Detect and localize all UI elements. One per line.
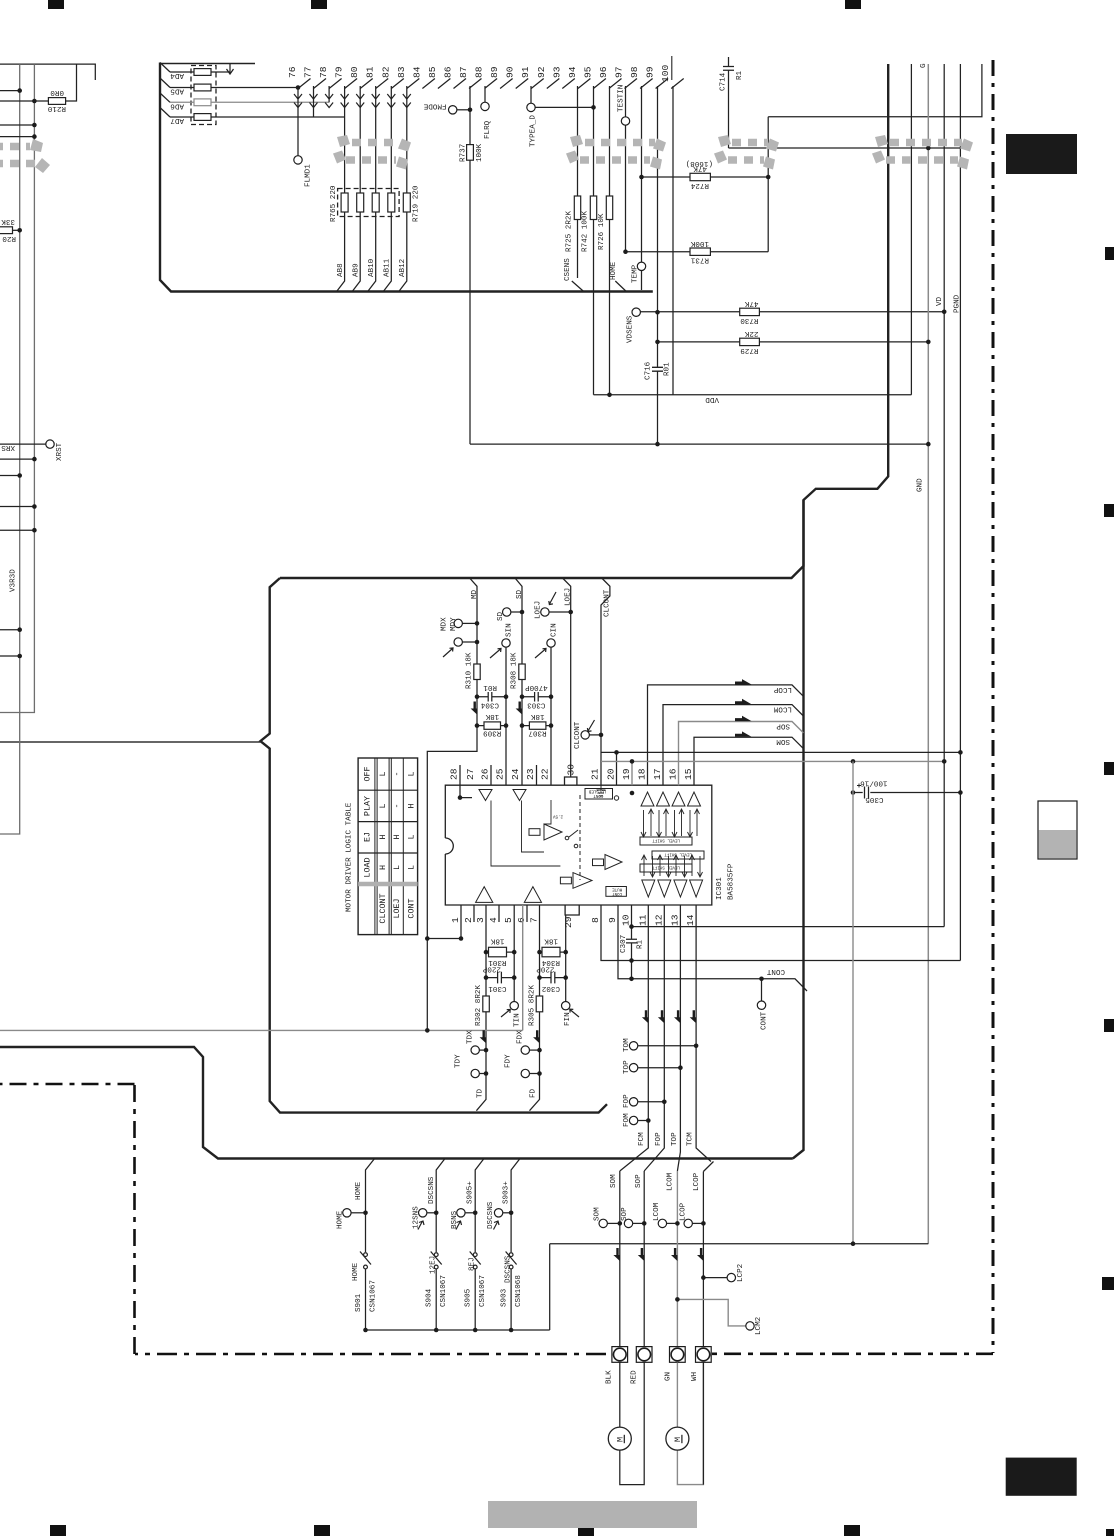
grey wire TIN rail (0, 905, 523, 1030)
wedge FD (533, 1030, 539, 1043)
svg-text:CONT: CONT (766, 967, 785, 975)
svg-text:77: 77 (303, 66, 314, 78)
registration mark top 3 (845, 0, 861, 9)
svg-text:10: 10 (621, 914, 632, 926)
internal wire pin24 (522, 801, 545, 853)
svg-text:EJ: EJ (363, 832, 373, 842)
svg-text:6: 6 (516, 917, 527, 923)
pin stubs 2,4 (474, 905, 527, 922)
wire pin94 R725 (572, 86, 584, 292)
arrow CLCONT (587, 720, 594, 732)
wedge LCOM (735, 699, 752, 704)
svg-text:S903+: S903+ (503, 1181, 511, 1204)
resistor R731 (626, 251, 769, 253)
terminal SD (503, 608, 511, 616)
svg-text:12SNS: 12SNS (413, 1206, 421, 1229)
terminal LOEJ (541, 608, 549, 616)
svg-text:R725 2R2K: R725 2R2K (566, 211, 574, 252)
wires bank to block edge (337, 212, 345, 292)
svg-text:0R0: 0R0 (50, 88, 64, 96)
registration mark right 2 (1104, 504, 1114, 517)
pin21 internal ground (597, 785, 606, 796)
wedge SOM (735, 731, 752, 736)
resistor R729 (658, 341, 929, 343)
terminal MDX (454, 638, 462, 646)
sensor switches row (343, 761, 929, 1330)
svg-text:47K: 47K (744, 299, 758, 307)
svg-text:MDY: MDY (450, 617, 458, 631)
svg-text:15: 15 (683, 768, 694, 780)
terminal TDY (471, 1069, 479, 1077)
svg-text:R765 220: R765 220 (330, 185, 338, 222)
opamp mid (544, 824, 562, 840)
resistor AD7 (170, 116, 345, 118)
svg-text:AD7: AD7 (170, 116, 184, 124)
svg-text:FD: FD (530, 1088, 538, 1098)
svg-text:LD/SLEB: LD/SLEB (588, 788, 606, 793)
wedge SD (516, 702, 522, 715)
connector pads (612, 1347, 711, 1363)
svg-text:R726 10K: R726 10K (598, 213, 606, 250)
bus line G (grey) (927, 64, 929, 1244)
pin20 internal circle (614, 796, 618, 800)
svg-text:24: 24 (510, 768, 521, 780)
svg-text:C302: C302 (541, 984, 560, 992)
svg-text:83: 83 (396, 66, 407, 78)
resistor AB9 (357, 193, 364, 212)
svg-text:LCOP: LCOP (680, 1202, 688, 1221)
registration mark right 1 (1105, 247, 1114, 260)
motor drive columns (599, 1171, 754, 1347)
resistor bank R765-R719 dashed box (338, 189, 400, 217)
capacitor C302 (540, 972, 566, 984)
svg-text:CLCONT: CLCONT (604, 589, 612, 617)
svg-text:DSCSNS: DSCSNS (428, 1176, 436, 1204)
svg-text:V3R3D: V3R3D (10, 569, 18, 592)
svg-text:HOME: HOME (352, 1262, 360, 1281)
LD/SLED CONT box (585, 789, 613, 800)
wire C714 rail (729, 147, 961, 149)
svg-text:AB11: AB11 (384, 258, 392, 277)
svg-text:CONT: CONT (612, 891, 623, 895)
svg-text:3: 3 (475, 917, 486, 923)
wire stub y656 (0, 655, 20, 657)
svg-text:C303: C303 (527, 700, 546, 708)
TOM TOP FOP FOM terminals (629, 1042, 696, 1125)
wire CONT-block entering notch (0, 741, 260, 743)
svg-text:HOME: HOME (610, 261, 618, 280)
svg-text:CSENS: CSENS (564, 258, 572, 281)
svg-text:100K: 100K (690, 239, 709, 247)
svg-text:4700P: 4700P (525, 683, 548, 691)
svg-text:22K: 22K (744, 329, 758, 337)
svg-text:R307: R307 (528, 728, 546, 736)
resistor pack dashed box AD4-AD7 (191, 66, 216, 125)
rail pin10 upper (632, 905, 945, 927)
svg-text:G: G (920, 63, 928, 68)
svg-text:81: 81 (365, 66, 376, 78)
comparator (573, 873, 592, 889)
bus line VD (943, 64, 945, 927)
IC301 top pin stubs (460, 752, 632, 797)
wire LCOM (663, 705, 803, 786)
wire SOM (694, 737, 803, 785)
wire pin100 (672, 86, 674, 395)
wedge MD (471, 702, 477, 715)
svg-text:TESTIN: TESTIN (618, 85, 626, 112)
svg-text:H: H (407, 803, 417, 808)
svg-text:21: 21 (590, 768, 601, 780)
svg-text:12EJ: 12EJ (430, 1256, 438, 1274)
resistor R210 0R0 (0, 64, 77, 101)
svg-text:220P: 220P (482, 964, 501, 972)
svg-text:SOP: SOP (621, 1207, 629, 1221)
svg-text:100K: 100K (476, 143, 484, 162)
svg-text:18: 18 (637, 768, 648, 780)
resistor R304 (540, 951, 566, 953)
wire pin87 / R737 (469, 86, 471, 444)
grey flex arrow over C714 rail (714, 135, 779, 170)
terminal TIN (510, 1002, 518, 1010)
wire stub y125 (0, 124, 34, 126)
svg-text:LCM2: LCM2 (755, 1316, 763, 1335)
rail pin8 (601, 905, 960, 961)
svg-text:98: 98 (629, 66, 640, 78)
wire stub y459 (0, 458, 34, 460)
IC301 top pin numbers 28-15,30 (449, 764, 695, 780)
grey flex arrow over right buses (872, 135, 973, 170)
svg-text:TOM: TOM (623, 1038, 631, 1052)
wedge SOM col (613, 1248, 619, 1261)
svg-text:IC301: IC301 (716, 877, 724, 900)
dash-dot page border right (992, 60, 995, 1353)
svg-text:23: 23 (525, 768, 536, 780)
svg-text:93: 93 (551, 66, 562, 78)
svg-text:AD4: AD4 (170, 71, 184, 79)
wedge TD (480, 1030, 486, 1043)
wire TD lower (476, 1050, 486, 1111)
svg-text:18K: 18K (530, 712, 544, 720)
wire pin77 (313, 86, 315, 117)
svg-text:R20: R20 (2, 234, 16, 242)
svg-text:DSCSNS: DSCSNS (505, 1255, 513, 1283)
svg-text:8: 8 (590, 917, 601, 923)
svg-text:47K: 47K (693, 164, 707, 172)
switch contacts (565, 836, 569, 840)
terminal LCP2 (727, 1273, 735, 1281)
terminal FIN (562, 1002, 570, 1010)
wedge LCOP (735, 679, 752, 684)
wire vertical A pin3 (485, 905, 487, 1050)
input triangle pin25 (513, 790, 526, 801)
capacitor C307 (626, 927, 637, 979)
svg-text:S904: S904 (426, 1288, 434, 1307)
IC301 right-side outputs (601, 685, 960, 1172)
svg-text:FIN: FIN (564, 1012, 572, 1026)
svg-text:SIN: SIN (506, 623, 514, 637)
svg-text:XRST: XRST (56, 442, 64, 461)
svg-text:C714: C714 (720, 72, 728, 91)
svg-text:XRS: XRS (1, 443, 15, 451)
svg-text:SOP: SOP (635, 1174, 643, 1188)
svg-text:R731: R731 (690, 256, 709, 264)
svg-text:94: 94 (567, 66, 578, 78)
wire vertical C pin6 (539, 905, 541, 1050)
svg-text:SD: SD (516, 589, 524, 599)
svg-text:R210: R210 (47, 104, 66, 112)
svg-text:SOM: SOM (610, 1174, 618, 1188)
svg-text:TIN: TIN (514, 1013, 522, 1027)
svg-text:FDY: FDY (505, 1054, 513, 1068)
svg-text:-: - (392, 803, 402, 808)
svg-text:HOME: HOME (355, 1181, 363, 1200)
svg-text:82: 82 (380, 66, 391, 78)
svg-text:26: 26 (480, 768, 491, 780)
dash-dot border left horizontal (0, 1083, 135, 1086)
registration mark bottom 1 (50, 1525, 66, 1536)
registration mark top 1 (48, 0, 64, 9)
svg-text:R742 100K: R742 100K (582, 211, 590, 252)
registration mark right 4 (1104, 1019, 1114, 1032)
wire pin78 (328, 86, 330, 102)
wire pins11-14 verticals (620, 905, 714, 1172)
svg-text:33K: 33K (1, 217, 15, 225)
svg-text:R1: R1 (637, 939, 645, 949)
wire stub y136 (0, 136, 34, 138)
pin direction chevrons 76-83 (294, 94, 411, 108)
arrow down AD4 (229, 63, 231, 73)
resistor R737 (467, 145, 474, 161)
wire LCOM column (676, 1171, 678, 1347)
wire pin96 R726 (609, 86, 611, 395)
pin29 tab (565, 905, 579, 915)
wire stub y475 (0, 475, 20, 477)
wedge TOP line (674, 1010, 680, 1023)
motor driver logic table (358, 758, 418, 935)
svg-text:5: 5 (503, 917, 514, 923)
svg-text:LCOM: LCOM (653, 1202, 661, 1221)
level shift box 1 (640, 837, 692, 845)
svg-text:OFF: OFF (363, 766, 373, 781)
wire SOP column (643, 1171, 645, 1347)
svg-text:MOTOR DRIVER LOGIC TABLE: MOTOR DRIVER LOGIC TABLE (346, 802, 354, 912)
junction dots output rails (614, 750, 963, 981)
svg-text:FCM: FCM (638, 1132, 646, 1146)
terminal MDY (454, 619, 462, 627)
black patch upper right (1006, 134, 1077, 174)
switch S905 column (475, 1159, 484, 1253)
svg-text:R302 8R2K: R302 8R2K (475, 985, 483, 1026)
dash-dot border bottom-right segment (712, 1353, 993, 1356)
svg-text:VD: VD (936, 296, 944, 306)
terminal TDX (471, 1046, 479, 1054)
svg-text:91: 91 (520, 66, 531, 78)
resistor R301 (486, 951, 514, 953)
wire second left vertical (0, 64, 34, 712)
wedge SOP col (638, 1248, 644, 1261)
svg-text:S903: S903 (501, 1288, 509, 1307)
svg-text:L: L (407, 771, 417, 776)
junction dots block A (296, 85, 947, 446)
svg-text:TEMP: TEMP (632, 264, 640, 283)
motor M2 (666, 1427, 689, 1450)
svg-text:97: 97 (614, 66, 625, 78)
resistor AB12 (R719) (403, 193, 410, 212)
wire stub y506 (0, 506, 34, 508)
resistor R308 (519, 664, 525, 680)
arrow LOEJ (549, 592, 556, 605)
capacitor C301 (486, 972, 514, 984)
svg-text:CLCONT: CLCONT (378, 893, 388, 923)
svg-text:29: 29 (563, 916, 574, 928)
svg-text:SOM: SOM (594, 1207, 602, 1221)
level shift box 3 (640, 864, 692, 872)
wire SD stub (515, 578, 522, 785)
svg-text:CSN1067: CSN1067 (370, 1280, 378, 1312)
svg-text:CIN: CIN (551, 623, 559, 637)
svg-text:12: 12 (653, 914, 664, 926)
block B boundary top and GND trunk (280, 64, 888, 578)
svg-text:FLRQ: FLRQ (484, 120, 492, 139)
svg-text:FOM: FOM (623, 1113, 631, 1127)
capacitor C303 wire (522, 692, 551, 702)
arrow SIN (490, 648, 501, 658)
svg-text:S905+: S905+ (467, 1181, 475, 1204)
svg-text:1: 1 (450, 917, 461, 923)
svg-text:28: 28 (449, 768, 460, 780)
bus line 2 (910, 64, 912, 395)
svg-text:AD6: AD6 (170, 101, 184, 109)
block B bottom boundary (0, 1047, 793, 1159)
wire pin97 TESTIN (625, 86, 627, 252)
svg-text:FDX: FDX (517, 1030, 525, 1044)
svg-text:99: 99 (645, 66, 656, 78)
wire pin80 (359, 86, 361, 193)
junction dots motor columns (618, 1221, 706, 1302)
svg-text:CONT: CONT (761, 1011, 769, 1030)
svg-text:R309: R309 (483, 728, 502, 736)
svg-text:L: L (378, 771, 388, 776)
wire CLCONT stub (601, 578, 610, 785)
svg-text:88: 88 (474, 66, 485, 78)
wire SOP (679, 722, 804, 786)
terminal LCOM (658, 1219, 666, 1227)
wire pin91 TYPEA_D (530, 86, 532, 103)
svg-text:LCOM: LCOM (773, 705, 792, 713)
terminal FLMD1 (294, 156, 302, 164)
wire FD lower (530, 1050, 540, 1111)
svg-text:16: 16 (668, 768, 679, 780)
resistor R208 33K (13, 229, 20, 231)
wire MD stub (427, 578, 477, 1030)
terminal SIN (502, 639, 510, 647)
svg-text:MUTE: MUTE (612, 886, 623, 890)
junction dots MD/SD cluster (475, 610, 604, 738)
terminal SOP (624, 1219, 632, 1227)
HOME stub (615, 281, 626, 292)
svg-text:GN: GN (665, 1372, 673, 1381)
terminal FDX (521, 1046, 529, 1054)
svg-text:11: 11 (637, 914, 648, 926)
wire stub y629 (0, 629, 20, 631)
resistor R305 (536, 996, 543, 1012)
svg-text:GND: GND (917, 478, 925, 492)
grey flex arrow over pin94-99 bus (566, 135, 666, 170)
svg-text:87: 87 (458, 66, 469, 78)
wire pin88 FLRQ (484, 86, 486, 102)
svg-text:20: 20 (606, 768, 617, 780)
block A top edge (160, 63, 255, 65)
svg-text:SOM: SOM (776, 737, 790, 745)
svg-text:TYPEA_D: TYPEA_D (530, 115, 538, 147)
wire pin95 R742 VDD (593, 86, 595, 395)
wire LCOP (648, 685, 804, 785)
resistor AB10 (372, 193, 379, 212)
wire pin83 (406, 86, 408, 193)
black patch lower right (1006, 1458, 1077, 1496)
svg-text:L: L (378, 803, 388, 808)
svg-text:C305: C305 (865, 795, 884, 803)
svg-text:95: 95 (582, 66, 593, 78)
svg-text:8EJ: 8EJ (469, 1257, 477, 1271)
svg-text:LCOM: LCOM (667, 1172, 675, 1191)
svg-text:LOEJ: LOEJ (535, 601, 543, 619)
svg-text:R308 18K: R308 18K (511, 652, 519, 689)
internal wire pin22 (544, 800, 551, 824)
svg-text:AB9: AB9 (353, 263, 361, 277)
registration mark right 5 (1102, 1277, 1114, 1290)
dash-dot border left vertical (133, 1084, 136, 1354)
svg-text:84: 84 (411, 66, 422, 78)
grey sensor return vertical (852, 761, 854, 1243)
svg-text:L: L (392, 865, 402, 870)
svg-text:C304: C304 (480, 700, 499, 708)
dash-dot border bottom-left segment (135, 1353, 606, 1356)
svg-text:9: 9 (607, 917, 618, 923)
svg-text:VDD: VDD (705, 395, 719, 403)
switch S901 column (366, 1159, 375, 1253)
junction dots left column (17, 88, 22, 93)
motor M1 (608, 1427, 631, 1450)
resistor AD4 (170, 71, 230, 73)
svg-text:220P: 220P (536, 964, 555, 972)
resistor AB8 (341, 193, 348, 212)
rail to R724 top (768, 64, 982, 117)
MUTE CONT box (606, 887, 627, 897)
IC301 output cells bottom (pins 11-14) (642, 855, 703, 897)
svg-text:TDY: TDY (455, 1054, 463, 1068)
wire LOEJ stub (563, 578, 571, 777)
svg-text:LCOP: LCOP (773, 685, 792, 693)
bus line PGND (959, 64, 961, 961)
svg-text:85: 85 (427, 66, 438, 78)
comparator 2 (605, 855, 622, 870)
svg-text:MD: MD (471, 589, 479, 599)
registration mark bottom 3 (578, 1525, 594, 1536)
junction dots RC cluster (425, 936, 568, 1076)
svg-text:HOME: HOME (337, 1210, 345, 1229)
wire pin1 (427, 905, 461, 939)
terminal XRST (46, 440, 54, 448)
grey patch bottom (488, 1501, 697, 1528)
svg-text:4: 4 (488, 917, 499, 923)
terminal CLCONT lower (581, 731, 589, 739)
capacitor C716 (652, 367, 663, 371)
svg-text:CONT: CONT (593, 793, 604, 797)
terminal VDSENS + R730 (632, 308, 640, 316)
wire pin87 rail long (470, 443, 928, 445)
block B right edge trunk lower (793, 500, 804, 1159)
